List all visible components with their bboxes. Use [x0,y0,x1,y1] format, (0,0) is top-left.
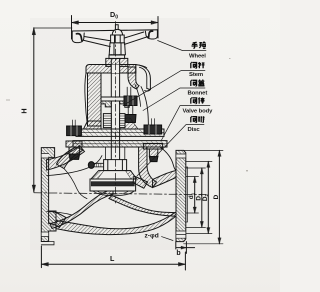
bonnet neck below flange [106,147,125,160]
body left shoulder wall [57,147,84,169]
left neck bottom wedge [49,211,66,227]
disc pin [88,162,103,169]
dimension D0 top [72,16,159,40]
leader stem [123,71,205,106]
left flange [41,148,56,245]
right chamber wall band [139,147,157,188]
seat ring right [133,176,148,188]
leader disc [137,125,204,176]
dimension L bottom [41,246,185,270]
handwheel right spoke [124,32,147,44]
handwheel nut [111,29,125,42]
svg-text:b: b [176,250,180,257]
leader wheel [158,41,206,51]
gland bolt right [124,87,137,122]
gland followers [101,100,129,107]
svg-text:D: D [213,194,220,199]
yoke top beam [86,65,136,74]
scan wash [30,18,210,250]
speck noise [6,58,248,171]
body outer right line [160,147,176,170]
stem collar [101,97,128,101]
body bottom wall band [56,212,176,235]
svg-text:L: L [110,254,115,263]
bonnet flange top plate [76,129,164,136]
chamber left inner wall line [64,169,87,199]
handwheel right rim [145,30,157,39]
chinese label fagan (stem) [191,62,205,68]
dimension D right [184,150,223,243]
bonnet bolt left [66,120,82,159]
left bore top line [47,156,102,176]
bonnet right wall [120,84,149,129]
dimension D1 right [186,168,206,227]
handwheel hub [109,43,125,55]
centerline horizontal [34,193,206,195]
yoke top boss [106,55,128,66]
chinese label shoulun (handwheel) [192,42,206,48]
handwheel top line [72,30,158,31]
disc body [90,179,136,196]
chinese label faban (disc) [191,116,205,122]
dimension d1 right [186,177,199,213]
packing box [103,114,125,128]
yoke right leg and curl [128,65,150,92]
leader bonnet [143,88,205,111]
dimension b [176,242,195,254]
chinese label fagai (bonnet) [191,80,205,86]
internal bridge band [50,190,113,229]
dimension D2 right [186,161,212,233]
right passage floor band [109,196,176,217]
stem [111,55,119,160]
chinese label fati (valve body) [191,97,205,103]
dimension H left [32,28,72,192]
right flange [176,150,188,241]
leader valve body [161,106,210,141]
body flange lower plate [73,141,167,147]
disc holder [91,171,137,179]
svg-text:H: H [20,108,29,113]
left neck top band [47,146,85,170]
centerline stem vertical [114,22,116,204]
yoke left leg [85,73,101,126]
bonnet bolt right [143,119,162,162]
handwheel left spoke [84,37,110,47]
disc stem collar [104,160,127,171]
stem tip above nut [115,25,118,30]
bonnet left wall [84,121,102,129]
left bore bottom line [47,211,72,215]
right neck top band [153,171,177,188]
handwheel left rim [72,31,84,43]
